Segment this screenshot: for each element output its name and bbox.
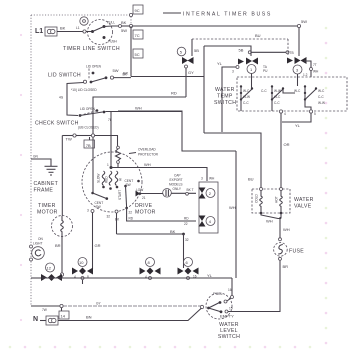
contact 10 triangles bbox=[72, 268, 93, 275]
svg-text:EMPTY: EMPTY bbox=[220, 314, 234, 319]
svg-text:WH: WH bbox=[266, 219, 273, 224]
wire lid pivot to check switch bbox=[67, 83, 84, 116]
wire GY left to motor slow bbox=[93, 97, 186, 192]
label TIMER MOTOR bbox=[37, 203, 58, 216]
on light lamp bbox=[32, 247, 45, 260]
terminal box 7C bbox=[133, 30, 143, 39]
svg-text:WATER: WATER bbox=[294, 197, 314, 203]
svg-text:32: 32 bbox=[185, 238, 189, 242]
label CAP EXPORT MODELS ONLY bbox=[169, 174, 183, 192]
svg-text:SLOW: SLOW bbox=[97, 174, 101, 183]
perforation dots left bbox=[20, 34, 22, 321]
svg-text:EXPORT: EXPORT bbox=[170, 178, 183, 182]
svg-text:BR: BR bbox=[283, 264, 289, 269]
svg-text:INTERNAL TIMER BUSS: INTERNAL TIMER BUSS bbox=[183, 12, 272, 18]
wire bus drop to full bbox=[231, 278, 233, 296]
wire timer motor feed bbox=[61, 136, 63, 217]
node buss junction bbox=[129, 24, 132, 27]
svg-text:FRAME: FRAME bbox=[34, 188, 54, 194]
svg-text:3: 3 bbox=[232, 70, 234, 74]
node contact1 left terminal bbox=[236, 66, 239, 69]
node cold coil top bbox=[260, 188, 263, 191]
svg-text:LIGHT: LIGHT bbox=[33, 242, 42, 246]
svg-text:TIMER LINE SWITCH: TIMER LINE SWITCH bbox=[63, 46, 120, 52]
contact 2 circled number bbox=[206, 189, 215, 198]
node contact 6 bus bbox=[187, 277, 190, 280]
wire motor 32 drop bbox=[116, 213, 118, 234]
wire fuse to valve bbox=[279, 217, 281, 238]
wire 7T into box bbox=[310, 71, 312, 78]
terminal box 7B bbox=[84, 137, 95, 148]
wire lid switch to rail bbox=[114, 77, 132, 79]
contact 6 circled number bbox=[184, 258, 193, 267]
water valve box bbox=[252, 189, 290, 213]
node temp terminal 5 bbox=[309, 110, 312, 113]
svg-text:BK: BK bbox=[170, 229, 176, 234]
svg-text:W-W: W-W bbox=[318, 101, 325, 105]
node 14 terminal bbox=[60, 304, 63, 307]
temp switch unit C bbox=[294, 85, 325, 105]
check switch contacts bbox=[79, 109, 106, 117]
wire OR hot valve bbox=[280, 113, 282, 188]
svg-text:RED: RED bbox=[105, 176, 109, 183]
node fuse bottom bbox=[279, 257, 282, 260]
wire N dash bbox=[40, 320, 46, 322]
temp switch unit A bbox=[240, 85, 253, 105]
label WATER LEVEL SWITCH bbox=[218, 322, 240, 340]
svg-text:PROTECTOR: PROTECTOR bbox=[138, 153, 159, 157]
label DRIVE MOTOR bbox=[135, 203, 156, 216]
svg-text:WH: WH bbox=[209, 177, 215, 181]
svg-text:5C: 5C bbox=[135, 52, 140, 57]
contact 12 triangles bbox=[41, 274, 62, 281]
timer motor enclosure bbox=[52, 216, 73, 237]
node temp terminal 4 bbox=[279, 110, 282, 113]
svg-text:WH: WH bbox=[144, 162, 151, 167]
contact 1 circled number bbox=[247, 65, 256, 74]
node 7T terminal bbox=[310, 68, 313, 71]
svg-text:BK T: BK T bbox=[187, 188, 194, 192]
svg-text:14: 14 bbox=[61, 314, 66, 319]
wire 5B drop to contact 5 bbox=[191, 39, 193, 56]
connector N bbox=[46, 316, 58, 325]
svg-text:YL: YL bbox=[295, 123, 301, 128]
temp switch unit B bbox=[261, 85, 284, 105]
wire internal timer buss bbox=[133, 25, 298, 27]
label ON LIGHT bbox=[33, 237, 43, 246]
node pull contact bbox=[103, 25, 106, 28]
svg-text:CABINET: CABINET bbox=[34, 181, 59, 187]
wire frame left bbox=[30, 15, 32, 306]
svg-text:ON: ON bbox=[38, 237, 43, 241]
contact 5 circled number bbox=[177, 47, 186, 56]
wire motor to cap bbox=[141, 193, 163, 195]
svg-text:1.2: 1.2 bbox=[303, 73, 308, 77]
node contact 8 bus bbox=[149, 277, 152, 280]
svg-text:TW: TW bbox=[66, 137, 72, 142]
svg-text:BK: BK bbox=[60, 26, 66, 31]
capacitor export bbox=[163, 189, 172, 198]
wire check switch output bbox=[106, 111, 183, 113]
svg-text:N: N bbox=[33, 316, 38, 323]
svg-text:MOTOR: MOTOR bbox=[135, 210, 156, 216]
wire switch input bbox=[86, 31, 92, 33]
contact 3 circled number bbox=[293, 65, 302, 74]
svg-text:FULL: FULL bbox=[213, 291, 224, 296]
svg-text:SWITCH: SWITCH bbox=[218, 334, 240, 340]
svg-text:OVERLOAD: OVERLOAD bbox=[138, 148, 156, 152]
svg-text:TIMER: TIMER bbox=[38, 203, 56, 209]
svg-text:W-C: W-C bbox=[243, 89, 250, 93]
svg-text:RD: RD bbox=[171, 91, 177, 96]
fuse bbox=[274, 243, 288, 257]
svg-text:W-C: W-C bbox=[274, 95, 281, 99]
timer line switch enclosure bbox=[88, 20, 113, 45]
contact 8 circled number bbox=[146, 258, 155, 267]
node 9C terminal circle bbox=[129, 13, 132, 16]
wire check feed across bbox=[118, 111, 236, 151]
node pivot bbox=[91, 30, 94, 33]
label OVERLOAD PROTECTOR bbox=[129, 148, 159, 157]
wire valve bottoms join bbox=[261, 213, 281, 219]
water level switch arms bbox=[207, 298, 231, 313]
node motor top terminal bbox=[110, 166, 113, 169]
svg-text:WH: WH bbox=[229, 205, 236, 210]
svg-text:RD: RD bbox=[129, 217, 134, 221]
label WATER VALVE bbox=[294, 197, 314, 210]
node timer line switch input bbox=[83, 30, 86, 33]
node junction 32 bbox=[182, 233, 185, 236]
svg-text:START: START bbox=[118, 190, 122, 200]
svg-text:7C: 7C bbox=[135, 33, 140, 38]
wire rail branch to contact 12 bbox=[31, 277, 41, 279]
wire drop to contact 6 bbox=[183, 234, 185, 268]
wire ground feed bbox=[31, 159, 51, 166]
wire motor top to export box bbox=[111, 168, 207, 182]
wire GY down bbox=[185, 68, 187, 97]
svg-text:BR: BR bbox=[55, 243, 61, 248]
svg-text:RD: RD bbox=[184, 217, 189, 221]
wire terminal rail drop bbox=[130, 26, 132, 77]
wire timer motor down bbox=[61, 236, 63, 273]
wire contact 10 tick bbox=[82, 280, 84, 284]
label CABINET FRAME bbox=[34, 181, 59, 194]
svg-text:C-C: C-C bbox=[274, 101, 280, 105]
node lamp top bbox=[30, 245, 33, 248]
contact 3 diamond bbox=[295, 57, 307, 64]
contact 6 triangles bbox=[178, 268, 199, 275]
svg-text:W-C: W-C bbox=[318, 89, 325, 93]
svg-text:PU: PU bbox=[263, 69, 268, 73]
contact 2 triangles bbox=[199, 188, 206, 199]
label 4 and 8 terminals bbox=[74, 275, 89, 279]
wire YL from contact1 bbox=[222, 67, 236, 132]
node contact 10 bus bbox=[81, 277, 84, 280]
svg-text:21: 21 bbox=[142, 196, 146, 200]
label 3 WH export bbox=[201, 177, 215, 181]
svg-text:(UB CLOSED): (UB CLOSED) bbox=[78, 126, 99, 130]
label WATER TEMP SWITCH bbox=[214, 87, 236, 106]
svg-text:FUSE: FUSE bbox=[289, 249, 304, 255]
wire 5B vertical bbox=[203, 46, 205, 133]
svg-text:16: 16 bbox=[228, 288, 232, 292]
svg-text:BU: BU bbox=[255, 33, 261, 38]
svg-text:TB: TB bbox=[290, 51, 294, 55]
svg-text:7T: 7T bbox=[313, 63, 317, 67]
contact 8 triangles bbox=[140, 268, 161, 275]
connector L1 bbox=[45, 27, 57, 36]
timer line switch dial symbol bbox=[80, 17, 88, 25]
terminal box 9C bbox=[133, 5, 143, 14]
svg-text:LOW: LOW bbox=[136, 188, 143, 192]
svg-text:9C: 9C bbox=[135, 8, 140, 13]
wire cap to contact 2 bbox=[171, 192, 196, 194]
wire output to buss bbox=[122, 25, 130, 27]
svg-text:DRIVE: DRIVE bbox=[135, 203, 153, 209]
svg-text:3: 3 bbox=[201, 177, 203, 181]
wire motor to contact 4 bbox=[127, 208, 196, 221]
svg-text:MOTOR: MOTOR bbox=[37, 210, 58, 216]
svg-text:22: 22 bbox=[129, 211, 133, 215]
svg-text:TEMP: TEMP bbox=[217, 94, 233, 100]
contact 1 diamond bbox=[246, 58, 258, 65]
svg-text:LID OPEN: LID OPEN bbox=[80, 107, 96, 111]
svg-text:GN: GN bbox=[33, 155, 38, 159]
perforation dots bottom bbox=[9, 346, 312, 349]
wire motor common up bbox=[110, 111, 112, 166]
timer motor coil bbox=[61, 216, 64, 236]
lid switch contacts bbox=[83, 69, 113, 84]
svg-text:W-W: W-W bbox=[274, 89, 281, 93]
svg-text:5B: 5B bbox=[194, 48, 199, 53]
wire buss drop right bbox=[298, 28, 300, 56]
svg-text:CHECK SWITCH: CHECK SWITCH bbox=[35, 121, 79, 127]
svg-text:5W: 5W bbox=[301, 19, 307, 24]
wire BU drop right dashed bbox=[287, 39, 289, 55]
svg-text:HI: HI bbox=[119, 178, 123, 181]
svg-text:5W: 5W bbox=[121, 28, 127, 33]
wire staircase down to full bbox=[235, 151, 237, 278]
svg-text:YL: YL bbox=[207, 273, 213, 278]
cold coil bbox=[255, 191, 263, 215]
wire frame top bbox=[31, 14, 130, 16]
svg-text:4: 4 bbox=[284, 112, 286, 116]
wire to water level common bbox=[63, 305, 201, 307]
svg-text:WH: WH bbox=[135, 106, 142, 111]
wire export box bottom bbox=[117, 233, 184, 235]
wire lid rail to 5B vertical bbox=[131, 76, 204, 78]
svg-text:L1: L1 bbox=[76, 26, 80, 30]
node switch output bbox=[119, 25, 122, 28]
svg-text:BU: BU bbox=[248, 177, 254, 182]
svg-text:BN: BN bbox=[86, 315, 92, 320]
svg-text:L1: L1 bbox=[35, 28, 43, 35]
wire contact3 to terminal bbox=[304, 61, 311, 68]
svg-text:4G: 4G bbox=[59, 96, 64, 100]
wire timer motor to bus bbox=[61, 276, 63, 278]
svg-text:7B: 7B bbox=[86, 143, 91, 148]
overload protector symbol bbox=[116, 146, 121, 167]
svg-text:GR: GR bbox=[95, 243, 101, 248]
svg-text:7W: 7W bbox=[42, 308, 47, 312]
contact 10 circled number bbox=[78, 258, 87, 267]
wire empty to fuse bbox=[228, 260, 280, 311]
svg-text:PUSH: PUSH bbox=[108, 40, 118, 44]
export contact box bbox=[199, 182, 218, 233]
svg-text:SWITCH: SWITCH bbox=[214, 100, 236, 106]
terminal box 5C bbox=[133, 49, 143, 58]
svg-text:W-W: W-W bbox=[243, 95, 250, 99]
wire frame bottom to water level bbox=[31, 305, 60, 307]
wire hot coil down bbox=[280, 213, 282, 219]
svg-text:5: 5 bbox=[314, 112, 316, 116]
svg-text:WATER: WATER bbox=[215, 87, 235, 93]
svg-text:BK: BK bbox=[121, 20, 127, 25]
svg-text:CAP: CAP bbox=[174, 174, 181, 178]
wire 5B to contact 1 bbox=[204, 46, 251, 56]
svg-text:ONLY: ONLY bbox=[173, 187, 182, 191]
contact 4 triangles bbox=[199, 216, 206, 227]
svg-text:22: 22 bbox=[184, 222, 188, 226]
wire yl to valve cold bbox=[204, 133, 261, 188]
svg-text:VALVE: VALVE bbox=[294, 204, 312, 210]
svg-text:C-C: C-C bbox=[243, 101, 249, 105]
wire bottom bus bbox=[42, 277, 232, 279]
svg-text:W-C: W-C bbox=[294, 89, 301, 93]
svg-text:5W: 5W bbox=[113, 68, 119, 73]
svg-text:SW: SW bbox=[96, 205, 101, 209]
temp switch interior stubs bbox=[241, 74, 311, 112]
svg-text:LID SWITCH: LID SWITCH bbox=[48, 73, 81, 79]
wire switch output bbox=[104, 25, 119, 28]
svg-text:15: 15 bbox=[229, 307, 233, 311]
svg-text:YL: YL bbox=[217, 61, 223, 66]
svg-text:*10( LID CLOSED: *10( LID CLOSED bbox=[71, 88, 97, 92]
terminal box 14 bbox=[59, 308, 69, 320]
svg-text:32: 32 bbox=[107, 215, 111, 219]
node lamp bottom bbox=[30, 258, 33, 261]
wire BU dashed export bbox=[192, 38, 288, 40]
svg-text:LID OPEN: LID OPEN bbox=[86, 65, 102, 69]
contact 12 circled number bbox=[46, 263, 55, 272]
switch arm pull bbox=[93, 27, 105, 32]
node hot coil top bbox=[280, 188, 283, 191]
node push contact bbox=[103, 36, 106, 39]
wire motor to contact 10 bbox=[92, 213, 94, 270]
label RD 22 bbox=[184, 217, 189, 227]
contact 4 circled number bbox=[206, 217, 215, 226]
wire 5B crosslink bbox=[248, 51, 293, 55]
contact 3 feed triangle bbox=[287, 58, 293, 64]
svg-text:MODELS: MODELS bbox=[169, 183, 182, 187]
internal timer buss leader bbox=[163, 12, 181, 14]
ground cabinet frame bbox=[45, 166, 58, 175]
node fuse top bbox=[279, 238, 282, 241]
svg-text:10: 10 bbox=[79, 260, 84, 265]
svg-text:12: 12 bbox=[47, 265, 52, 270]
wire L1 to timer line switch bbox=[57, 31, 83, 33]
contact 5 triangles bbox=[182, 57, 194, 64]
wire N to water level bbox=[58, 308, 202, 321]
svg-text:1: 1 bbox=[107, 163, 109, 167]
svg-text:OR: OR bbox=[284, 142, 290, 147]
wire 9C drop bbox=[130, 17, 132, 25]
svg-text:PULL: PULL bbox=[107, 21, 115, 25]
water temp switch box bbox=[237, 77, 347, 111]
svg-text:COLD: COLD bbox=[255, 193, 259, 203]
svg-text:WH: WH bbox=[313, 70, 319, 74]
wire 7B link bbox=[62, 134, 117, 146]
svg-text:5B: 5B bbox=[239, 48, 244, 53]
node timer motor terminal bbox=[60, 273, 63, 276]
svg-text:WH: WH bbox=[283, 227, 290, 232]
perforation dots right bbox=[325, 27, 328, 345]
water level switch enclosure bbox=[206, 293, 232, 319]
node water level common bbox=[200, 305, 203, 308]
svg-text:HOT: HOT bbox=[275, 196, 279, 203]
node full top bbox=[231, 296, 234, 299]
motor internals bbox=[87, 171, 146, 222]
contact 1 feed triangle bbox=[238, 59, 244, 65]
svg-text:GY: GY bbox=[188, 70, 194, 75]
node contact 5 out bbox=[185, 65, 188, 68]
svg-text:C-C: C-C bbox=[318, 95, 324, 99]
drive motor enclosure bbox=[82, 152, 142, 212]
svg-text:3: 3 bbox=[87, 209, 89, 213]
node buss corner bbox=[297, 24, 300, 27]
svg-text:C-C: C-C bbox=[261, 89, 267, 93]
wire terminal5 jog bbox=[282, 113, 311, 122]
hot coil bbox=[275, 191, 283, 215]
